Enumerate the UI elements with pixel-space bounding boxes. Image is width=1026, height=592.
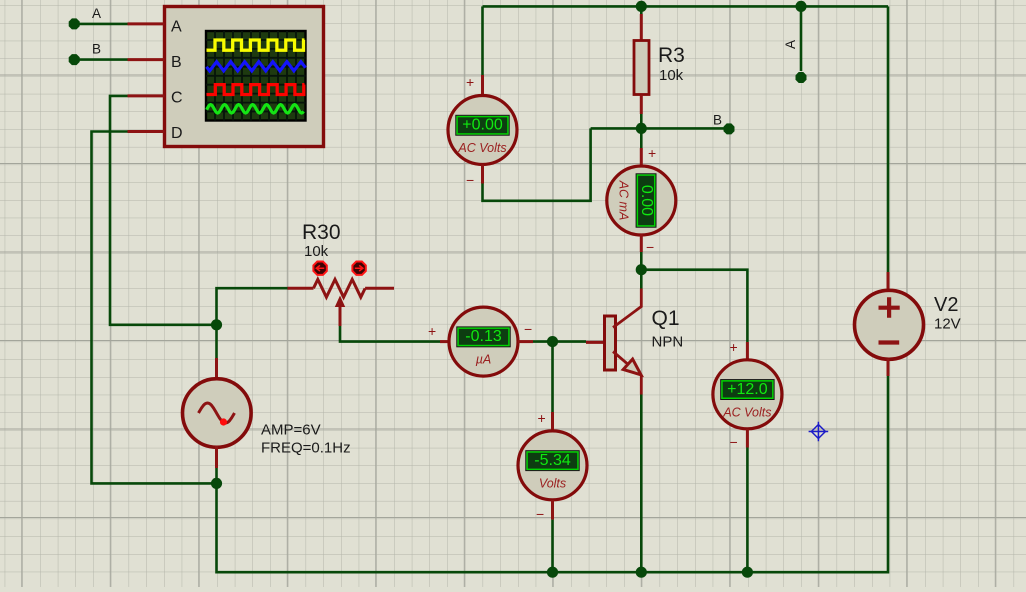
V2 plus symbol [879,297,900,317]
svg-text:+0.00: +0.00 [462,117,503,134]
svg-text:+12.0: +12.0 [727,381,768,398]
V2 bottom stub [887,359,890,376]
wire collector junction to AC voltmeter 2 [641,270,747,342]
svg-text:A: A [92,6,101,21]
svg-text:V2: V2 [934,294,958,316]
AC voltmeter top stub [481,75,484,96]
wire terminal B to scope [74,58,127,61]
wire R3 bottom to AC milliammeter [640,128,643,148]
node junction collector [636,264,647,275]
svg-text:10k: 10k [659,67,684,84]
scope trace channel A yellow square wave [207,40,305,50]
svg-text:0.00: 0.00 [638,185,655,216]
microammeter left stub [440,340,449,343]
svg-text:+: + [538,410,546,426]
svg-text:10k: 10k [304,243,329,260]
potentiometer R30 zigzag [314,279,366,297]
wire V2 to ground rail [747,376,888,572]
svg-text:FREQ=0.1Hz: FREQ=0.1Hz [261,440,351,457]
wire scope D to left bus [92,132,217,484]
svg-text:B: B [92,42,101,57]
scope trace channel B blue sine wave [207,62,306,71]
R30 increment button [352,262,365,275]
scope pin C stub [128,94,165,97]
terminal A (input) [69,6,101,29]
AC milliammeter AM2 (rotated) [607,166,676,235]
AC milliammeter bottom stub [640,234,643,252]
node junction voltmeter ground [547,567,558,578]
sine generator red dot [220,418,227,425]
battery V2 body [855,290,924,359]
microammeter AM3 [449,307,518,376]
R3 bottom lead [640,95,643,115]
microammeter right stub [518,340,533,343]
wire top rail to R3 [640,6,643,14]
svg-text:-5.34: -5.34 [534,452,571,469]
oscilloscope screen [206,31,306,121]
potentiometer R30 right lead [365,287,394,290]
generator top stub [215,358,218,379]
scope pin A stub [128,22,165,25]
svg-text:NPN: NPN [652,334,684,351]
node junction at sine source top [211,319,222,330]
origin marker (blue crosshair) [809,422,829,442]
svg-text:−: − [646,239,654,255]
svg-text:B: B [713,113,722,128]
resistor R3 body [634,41,649,95]
AC voltmeter 2 bottom stub [746,429,749,448]
wire R30 wiper to microammeter [340,326,440,342]
wire terminal A to scope [74,23,127,26]
wire emitter to ground rail [640,395,643,573]
transistor Q1 base bar [605,316,616,370]
wire AC milliammeter to collector junction [640,252,643,270]
wire AC voltmeter 2 to ground rail [746,448,749,573]
svg-text:R3: R3 [658,44,685,67]
svg-text:+: + [466,74,474,90]
transistor Q1 collector lead [613,289,641,328]
svg-text:−: − [536,506,544,522]
node junction rail at terminal A [795,1,806,12]
AC milliammeter top stub [640,148,643,167]
scope trace channel D green sine wave [207,105,304,113]
wire generator bottom to ground rail [217,468,553,572]
wire scope C to left bus [110,96,217,325]
svg-text:µA: µA [476,353,492,367]
terminal B (input) [69,42,101,66]
transistor Q1 emitter lead [613,352,641,395]
svg-text:AMP=6V: AMP=6V [261,422,321,439]
wire junction to generator top [215,325,218,358]
node junction AC voltmeter 2 ground [742,567,753,578]
svg-text:AC mA: AC mA [616,180,630,221]
svg-text:Q1: Q1 [652,307,680,330]
svg-text:B: B [171,54,182,71]
scope trace channel C red square wave [207,85,305,95]
svg-text:A: A [171,18,182,35]
terminal A (right, rotated label) [783,40,807,83]
oscilloscope U-scope body [165,7,324,147]
terminal B (right) [713,113,735,135]
sine generator waveform symbol [199,403,235,423]
wire microammeter to transistor base [533,340,586,343]
V2 minus symbol [879,340,900,344]
wire terminal A stub from rail [800,6,803,71]
R30 decrement button [313,262,326,275]
node junction generator bottom [211,478,222,489]
svg-text:−: − [730,434,738,450]
svg-text:C: C [171,90,183,107]
wire collector up to ammeter junction [640,270,643,289]
transistor Q1 base stub [586,341,605,344]
svg-text:R30: R30 [302,221,341,244]
node junction R3 bottom [636,123,647,134]
potentiometer R30 left lead [288,287,314,290]
generator bottom stub [215,446,218,468]
top power rail wire [483,5,889,8]
wire node to R30 [217,288,288,325]
AC voltmeter 2 top stub [746,342,749,361]
transistor Q1 emitter arrow [623,359,641,375]
voltmeter top stub [551,412,554,431]
svg-text:−: − [524,321,532,337]
svg-text:+: + [730,339,738,355]
node junction R3 top [636,1,647,12]
wire node B [591,127,729,130]
svg-text:+: + [428,323,436,339]
voltmeter VM2 [518,431,587,500]
svg-text:Volts: Volts [539,476,566,490]
R3 top lead [640,14,643,41]
svg-text:+: + [648,145,656,161]
svg-text:A: A [783,40,798,49]
svg-text:D: D [171,125,183,142]
node junction emitter ground [636,567,647,578]
scope pin D stub [128,130,165,133]
ground rail wire middle [553,571,748,574]
svg-text:-0.13: -0.13 [465,328,502,345]
wire AC voltmeter to node B [483,128,591,200]
AC voltmeter VM3 (+12.0) [713,360,782,429]
scope pin B stub [128,58,165,61]
svg-text:AC Volts: AC Volts [457,141,506,155]
svg-text:12V: 12V [934,316,961,333]
AC voltmeter VM1 [448,96,517,165]
wire top rail to V2 [887,6,890,272]
wire top rail down to AC voltmeter [481,6,484,75]
wire R3 to node B row [640,114,643,128]
svg-text:−: − [466,172,474,188]
voltmeter bottom stub [551,500,554,520]
svg-text:AC Volts: AC Volts [722,405,771,419]
sine generator body [183,379,252,448]
AC voltmeter bottom stub [481,165,484,184]
wire base junction down to voltmeter [551,342,554,412]
node junction at base [547,336,558,347]
wire voltmeter to ground rail [551,520,554,573]
potentiometer R30 wiper arrow [335,296,345,308]
V2 top stub [887,272,890,291]
